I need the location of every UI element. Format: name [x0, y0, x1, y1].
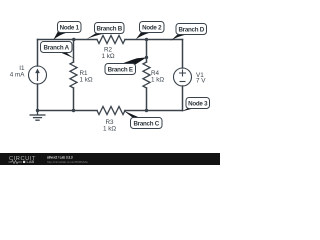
resistor R4 body [143, 62, 150, 88]
svg-text:Branch A: Branch A [44, 45, 70, 52]
voltage source V1 circle [174, 68, 192, 86]
svg-text:Branch B: Branch B [96, 26, 122, 33]
callout Branch D tail [170, 34, 187, 41]
ground symbol [30, 111, 46, 121]
callout Node 2 [140, 22, 165, 33]
voltage source V1 plus sign [179, 70, 186, 82]
svg-text:Branch C: Branch C [133, 121, 159, 128]
wire top-left segment [38, 39, 98, 41]
callout Branch E [105, 64, 136, 75]
current source I1 circle [29, 66, 47, 84]
label R4 value [151, 70, 164, 84]
svg-text:1 kΩ: 1 kΩ [101, 53, 114, 60]
voltage source V1 minus sign [180, 81, 186, 83]
node dot top R1 [72, 38, 75, 41]
resistor R2 body [97, 36, 125, 44]
node dot bottom R4 [145, 109, 148, 112]
svg-text:7 V: 7 V [196, 77, 206, 84]
wire R4 column [146, 40, 148, 63]
label I1 value [10, 65, 25, 79]
callout Node 3 tail [182, 107, 198, 111]
callout Node 3 [186, 98, 210, 109]
callout Branch B [95, 23, 125, 34]
callout Node 1 tail [53, 32, 67, 40]
label R3 value [103, 119, 116, 133]
callout Branch C tail [123, 110, 141, 118]
callout Branch A [41, 42, 73, 53]
svg-text:4 mA: 4 mA [10, 72, 25, 79]
wire R1 column [73, 40, 75, 63]
wire left column (I1 branch) [37, 40, 39, 67]
callout Node 2 tail [136, 32, 151, 40]
current source I1 arrow [35, 69, 40, 82]
resistor R1 body [70, 62, 77, 88]
svg-text:1 kΩ: 1 kΩ [80, 77, 93, 84]
label V1 value [196, 72, 206, 85]
wire right column (V1 branch) [182, 40, 184, 69]
callout Branch C [131, 118, 163, 129]
footer bar [0, 153, 220, 165]
wire bottom [38, 110, 98, 112]
label R2 value [101, 47, 114, 61]
svg-text:Node 2: Node 2 [142, 25, 162, 32]
svg-text:Branch D: Branch D [178, 27, 204, 34]
callout Branch E tail [120, 57, 147, 65]
resistor R3 body [97, 107, 125, 115]
node dot bottom ground [36, 109, 39, 112]
node dot bottom R1 [72, 109, 75, 112]
svg-text:1 kΩ: 1 kΩ [103, 126, 116, 133]
callout Branch B tail [86, 33, 106, 40]
node dot top R4 [145, 38, 148, 41]
callout Node 1 [58, 22, 82, 33]
callout Branch A tail [59, 52, 74, 59]
svg-text:1 kΩ: 1 kΩ [151, 77, 164, 84]
svg-text:Branch E: Branch E [108, 67, 133, 74]
svg-text:Node 1: Node 1 [60, 25, 80, 32]
junction node dots [36, 38, 148, 112]
svg-text:Node 3: Node 3 [188, 101, 208, 108]
footer CircuitLab logo [9, 156, 36, 164]
callout Branch D [176, 24, 207, 35]
label R1 value [80, 70, 93, 84]
wire top-right segment [125, 39, 183, 41]
svg-text:http://circuitlab.com/c/59f66b: http://circuitlab.com/c/59f66b/la [47, 160, 88, 164]
node dot R4 upper (Branch E anchor) [145, 56, 148, 59]
svg-text:LAB: LAB [27, 160, 35, 164]
